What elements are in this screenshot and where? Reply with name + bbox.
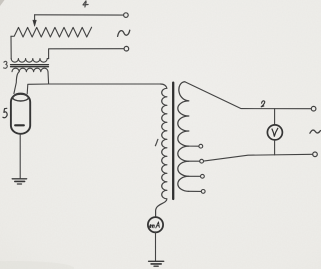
terminal HV top [311, 106, 316, 111]
label 1 [155, 139, 158, 145]
potentiometer R 4 zigzag [11, 27, 92, 37]
tap stub 1 [189, 145, 199, 147]
label 3 [4, 61, 8, 68]
wire mA to ground [155, 232, 157, 261]
wire secondary top to HV top terminal [185, 82, 311, 109]
tap circle 3 [201, 174, 205, 178]
HV transformer primary winding [156, 84, 167, 217]
wire HV bus tube to primary top [27, 84, 161, 94]
tube top dome [13, 94, 29, 101]
tap circle 1 [199, 144, 203, 148]
HV transformer core [172, 83, 174, 199]
label 5 [3, 108, 7, 117]
bottom-left corner shading [0, 261, 74, 269]
tap stub 4 secondary bottom [189, 190, 201, 192]
terminal HV bottom [313, 152, 318, 157]
wire resistor left end down to T2 [10, 36, 12, 58]
T2 core bar 2 [11, 66, 49, 68]
tap stub 3 [189, 175, 201, 177]
voltmeter V2 [267, 125, 282, 140]
T2 core bar 1 [11, 64, 49, 66]
terminal bottom AC [124, 46, 129, 51]
HV transformer secondary winding [178, 82, 189, 192]
tap circle 4 [201, 190, 205, 194]
wire T2 bottom-left lead to tube [14, 72, 19, 94]
AC source tilde [118, 30, 130, 36]
wiper arrow [34, 15, 36, 22]
ground under mA [149, 260, 164, 262]
voltmeter top lead [274, 109, 276, 125]
wire T2 top winding to bottom AC terminal [49, 49, 124, 59]
milliammeter mA [148, 217, 163, 232]
wire wiper to top AC terminal [35, 14, 124, 16]
ground under tube [12, 178, 26, 180]
terminal top AC [124, 13, 129, 18]
label 4 [83, 1, 88, 7]
label 2 [261, 101, 265, 107]
tube V5 envelope [11, 94, 30, 134]
wire tube cathode to ground [19, 134, 21, 179]
transformer T2 top winding [11, 59, 48, 63]
voltmeter bottom lead [274, 140, 276, 155]
top-left corner smudge [0, 0, 5, 6]
T2 bottom winding [12, 68, 48, 72]
tap circle 2 [200, 159, 204, 163]
tap stub 2 [189, 160, 200, 162]
wire tap2 to HV bottom terminal [204, 154, 313, 161]
tube anode bar [15, 124, 24, 126]
AC indicator tilde right [310, 130, 321, 133]
wire T2 bottom-right lead down to HV bus [47, 72, 50, 84]
